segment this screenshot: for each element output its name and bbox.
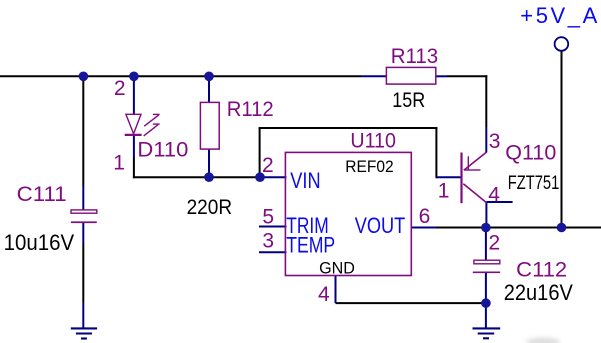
svg-text:+5V_A: +5V_A	[520, 3, 597, 28]
svg-text:22u16V: 22u16V	[504, 280, 573, 305]
svg-text:3: 3	[489, 130, 501, 153]
svg-text:2: 2	[262, 154, 274, 177]
svg-text:4: 4	[318, 283, 330, 306]
svg-text:VOUT: VOUT	[355, 213, 406, 238]
svg-text:TEMP: TEMP	[286, 233, 335, 258]
svg-text:1: 1	[438, 179, 450, 202]
svg-text:R112: R112	[227, 98, 274, 121]
svg-text:10u16V: 10u16V	[4, 230, 75, 255]
svg-text:C111: C111	[17, 183, 67, 206]
svg-text:VIN: VIN	[290, 168, 320, 193]
svg-text:REF02: REF02	[345, 157, 393, 176]
svg-text:2: 2	[114, 77, 126, 100]
svg-text:15R: 15R	[392, 89, 425, 112]
svg-text:6: 6	[419, 205, 431, 228]
svg-text:GND: GND	[319, 258, 355, 277]
svg-text:FZT751: FZT751	[508, 173, 560, 194]
svg-text:1: 1	[113, 151, 125, 174]
svg-text:3: 3	[262, 230, 274, 253]
svg-text:2: 2	[489, 231, 501, 254]
svg-text:4: 4	[488, 184, 500, 207]
svg-text:R113: R113	[391, 45, 439, 68]
svg-text:220R: 220R	[187, 196, 233, 219]
svg-text:Q110: Q110	[505, 142, 556, 165]
svg-text:C112: C112	[516, 258, 567, 281]
svg-text:U110: U110	[350, 130, 396, 153]
svg-text:D110: D110	[137, 139, 188, 162]
svg-text:5: 5	[262, 206, 274, 229]
